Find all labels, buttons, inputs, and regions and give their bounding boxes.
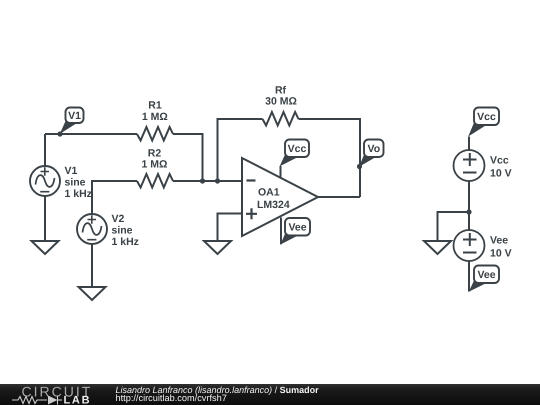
svg-text:10 V: 10 V [490, 167, 512, 179]
svg-text:Vee: Vee [490, 235, 508, 247]
svg-text:sine: sine [112, 224, 133, 236]
svg-text:R1: R1 [148, 99, 162, 111]
svg-text:1 kHz: 1 kHz [112, 236, 139, 248]
svg-text:Vo: Vo [367, 143, 380, 155]
svg-text:Rf: Rf [275, 85, 287, 97]
svg-text:LM324: LM324 [257, 199, 290, 211]
svg-text:1 MΩ: 1 MΩ [142, 159, 168, 171]
svg-text:10 V: 10 V [490, 247, 512, 259]
svg-text:sine: sine [65, 176, 86, 188]
svg-text:V1: V1 [65, 165, 78, 177]
svg-text:V2: V2 [112, 213, 125, 225]
svg-text:OA1: OA1 [258, 186, 280, 198]
svg-text:1 kHz: 1 kHz [65, 188, 92, 200]
svg-text:R2: R2 [148, 147, 162, 159]
svg-text:30 MΩ: 30 MΩ [265, 96, 297, 108]
svg-text:Vcc: Vcc [477, 111, 496, 123]
svg-text:V1: V1 [68, 110, 81, 122]
svg-text:Vcc: Vcc [288, 143, 307, 155]
svg-text:Vee: Vee [477, 269, 495, 281]
svg-text:1 MΩ: 1 MΩ [142, 111, 168, 123]
svg-text:Vcc: Vcc [490, 155, 509, 167]
svg-text:LAB: LAB [64, 395, 92, 405]
svg-text:Vee: Vee [288, 222, 306, 234]
